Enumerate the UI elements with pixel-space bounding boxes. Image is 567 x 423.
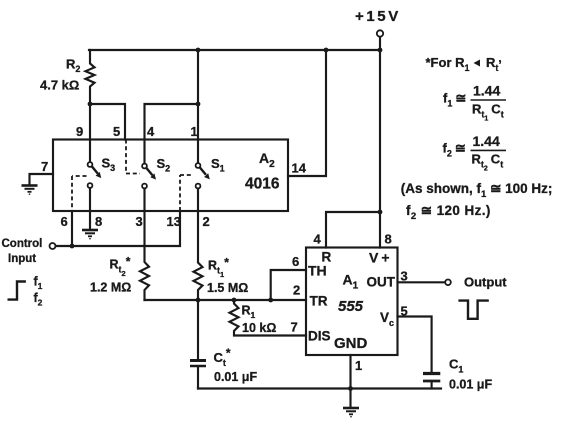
svg-text:S2: S2 xyxy=(157,156,171,174)
svg-text:f2: f2 xyxy=(34,291,43,308)
svg-text:6: 6 xyxy=(292,254,299,269)
svg-text:V+: V+ xyxy=(369,250,393,266)
svg-text:A2: A2 xyxy=(259,150,275,170)
svg-text:10 kΩ: 10 kΩ xyxy=(242,321,276,335)
svg-text:0.01 μF: 0.01 μF xyxy=(449,378,492,392)
svg-text:2: 2 xyxy=(293,283,300,298)
svg-text:+15V: +15V xyxy=(355,8,401,25)
svg-text:GND: GND xyxy=(334,335,368,352)
svg-text:4: 4 xyxy=(147,124,155,139)
svg-text:3: 3 xyxy=(136,214,143,229)
svg-text:2: 2 xyxy=(203,214,210,229)
svg-text:0.01 μF: 0.01 μF xyxy=(214,370,257,384)
svg-text:DIS: DIS xyxy=(308,329,331,344)
svg-text:8: 8 xyxy=(95,214,102,229)
svg-text:TH: TH xyxy=(308,263,327,279)
svg-text:1.5 MΩ: 1.5 MΩ xyxy=(207,281,248,295)
svg-text:Rt2*: Rt2* xyxy=(110,255,131,279)
svg-text:f2 ≅ 120 Hz.): f2 ≅ 120 Hz.) xyxy=(406,203,491,222)
svg-text:14: 14 xyxy=(292,161,307,176)
svg-text:f2≅: f2≅ xyxy=(443,141,466,159)
svg-text:A1: A1 xyxy=(343,272,359,292)
svg-text:Output: Output xyxy=(464,275,507,290)
svg-text:5: 5 xyxy=(113,124,120,139)
svg-text:7: 7 xyxy=(41,159,48,174)
svg-text:S1: S1 xyxy=(211,156,225,174)
svg-text:7: 7 xyxy=(291,320,298,335)
svg-text:R2: R2 xyxy=(66,57,80,75)
svg-text:9: 9 xyxy=(76,124,83,139)
svg-text:f1≅: f1≅ xyxy=(443,91,466,109)
svg-text:Control: Control xyxy=(2,238,43,250)
svg-text:5: 5 xyxy=(401,304,408,319)
svg-text:Vc: Vc xyxy=(380,310,394,328)
svg-text:4016: 4016 xyxy=(245,176,280,193)
svg-text:*For R1: *For R1 xyxy=(426,55,470,73)
svg-text:(As shown, f1 ≅ 100 Hz;: (As shown, f1 ≅ 100 Hz; xyxy=(401,181,553,200)
svg-text:Rt2Ct: Rt2Ct xyxy=(472,152,504,173)
svg-text:TR: TR xyxy=(310,294,328,309)
svg-text:1.44: 1.44 xyxy=(473,133,500,149)
svg-text:555: 555 xyxy=(338,298,364,315)
svg-text:1.44: 1.44 xyxy=(473,82,500,98)
svg-text:R1: R1 xyxy=(242,304,256,321)
svg-text:1: 1 xyxy=(191,124,198,139)
svg-text:1.2 MΩ: 1.2 MΩ xyxy=(90,281,131,295)
svg-text:Ct*: Ct* xyxy=(214,346,231,368)
svg-text:4: 4 xyxy=(314,232,322,247)
svg-text:8: 8 xyxy=(385,232,392,247)
svg-text:4.7 kΩ: 4.7 kΩ xyxy=(40,78,79,93)
svg-text:Rt,: Rt, xyxy=(486,51,502,73)
svg-text:6: 6 xyxy=(61,214,68,229)
svg-text:Rt1Ct: Rt1Ct xyxy=(472,102,504,123)
svg-text:Rt1*: Rt1* xyxy=(208,256,229,280)
svg-text:C1: C1 xyxy=(449,357,463,375)
svg-text:f1: f1 xyxy=(34,275,43,292)
svg-text:13: 13 xyxy=(167,214,181,229)
svg-text:Input: Input xyxy=(8,253,36,265)
svg-text:1: 1 xyxy=(355,358,362,373)
svg-text:3: 3 xyxy=(401,269,408,284)
svg-text:S3: S3 xyxy=(102,156,116,174)
svg-text:OUT: OUT xyxy=(367,275,396,290)
